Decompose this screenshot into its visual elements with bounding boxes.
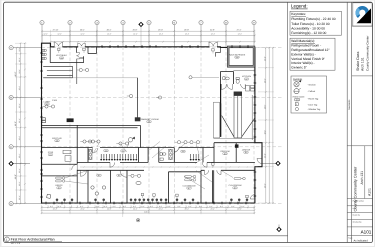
entry double doors west pair (54, 42, 63, 46)
svg-text:18'-0": 18'-0" (263, 153, 266, 158)
svg-text:26'-4": 26'-4" (107, 29, 112, 32)
svg-text:Scale: Scale (348, 236, 352, 239)
svg-text:Vertical Metal Finish 9": Vertical Metal Finish 9" (291, 57, 325, 61)
svg-text:26'-8": 26'-8" (184, 29, 189, 32)
sheet number rotated divider (364, 146, 366, 199)
svg-text:108: 108 (236, 56, 239, 59)
logo black triangle (357, 8, 372, 23)
svg-text:C: C (10, 146, 12, 149)
window ticks bottom wall (45, 202, 246, 205)
kitchen counters (233, 71, 255, 141)
corridor dimension string (80, 166, 258, 167)
svg-text:12'-4": 12'-4" (57, 33, 62, 36)
left rooms column walls (42, 125, 141, 203)
bottom dimension line row 2 (41, 209, 256, 211)
svg-text:18'-0": 18'-0" (263, 130, 266, 135)
view title separator (4, 235, 288, 237)
stor closet fixtures (63, 150, 71, 161)
window ticks top wall (101, 45, 248, 48)
project cell top line (347, 145, 372, 147)
svg-text:12'-4": 12'-4" (18, 47, 21, 52)
row grid bubbles A-D (9, 46, 13, 206)
svg-text:26'-4": 26'-4" (185, 208, 190, 211)
svg-text:113: 113 (245, 151, 248, 154)
svg-text:26'-4": 26'-4" (81, 208, 86, 211)
svg-text:26'-4": 26'-4" (237, 208, 242, 211)
wc door arcs (221, 84, 232, 89)
svg-text:Accessibility - 10 00 00: Accessibility - 10 00 00 (291, 27, 325, 31)
north service double door (209, 42, 217, 46)
corner toilet fixtures (42, 49, 46, 59)
svg-text:18'-0": 18'-0" (263, 78, 266, 83)
column grid lines (42, 47, 254, 214)
svg-text:Refrigerated Room -: Refrigerated Room - (291, 44, 321, 48)
restroom toilet stalls women (100, 154, 137, 161)
wc leader callout (189, 76, 219, 79)
svg-text:26'-4": 26'-4" (107, 208, 112, 211)
lobby drinking fountains (42, 118, 45, 123)
classroom leader diagonals (184, 155, 233, 189)
svg-text:Arch 131: Arch 131 (361, 57, 365, 71)
svg-text:Symbols: Symbols (293, 78, 303, 81)
kitchen se door (241, 84, 246, 89)
svg-text:46'-8": 46'-8" (14, 121, 17, 126)
consultant cell line (352, 25, 373, 27)
right dimension texts (263, 56, 266, 188)
right dimension extension lines (258, 48, 274, 203)
stage ramp (234, 92, 242, 138)
section marker top (138, 22, 143, 47)
svg-text:Revisions: Revisions (348, 99, 351, 110)
svg-text:18'-0": 18'-0" (263, 183, 266, 188)
office desk (47, 194, 51, 198)
PLAN_END (290, 4, 341, 113)
svg-text:12'-4": 12'-4" (18, 118, 21, 123)
svg-text:116: 116 (118, 174, 121, 177)
window ticks left wall (40, 52, 43, 197)
left dimension extension lines (15, 43, 26, 203)
svg-text:- Window Tag: - Window Tag (307, 108, 321, 111)
kitchen wing walls (214, 71, 255, 162)
svg-text:26'-4": 26'-4" (211, 208, 216, 211)
row grid stems (13, 48, 41, 204)
restroom band walls (77, 143, 255, 163)
column grid stems (42, 25, 254, 47)
svg-text:D: D (10, 203, 12, 206)
svg-text:118: 118 (234, 187, 237, 190)
right dimension line col 1 (265, 47, 267, 204)
svg-text:26'-4": 26'-4" (80, 29, 85, 32)
svg-text:12'-4": 12'-4" (18, 57, 21, 62)
svg-text:18'-0": 18'-0" (263, 56, 266, 61)
svg-text:102: 102 (122, 150, 125, 153)
svg-text:Wall Material(s):: Wall Material(s): (291, 39, 315, 43)
top dimension texts (43, 29, 242, 36)
symbol section marker (294, 80, 317, 87)
keynotes box (290, 11, 341, 35)
svg-text:12'-4": 12'-4" (107, 33, 112, 36)
svg-text:104: 104 (182, 150, 185, 153)
svg-text:Toilet Fixture(s) - 10 28 00: Toilet Fixture(s) - 10 28 00 (291, 22, 329, 26)
svg-text:218'-0": 218'-0" (144, 211, 150, 214)
svg-text:- Section: - Section (307, 83, 316, 86)
svg-text:25'-8": 25'-8" (133, 29, 138, 32)
svg-text:Plumbing Fixture(s) - 22 40 00: Plumbing Fixture(s) - 22 40 00 (291, 17, 336, 21)
section flag marker mid (128, 137, 135, 148)
view title underline (10, 240, 62, 242)
svg-text:12'-4": 12'-4" (18, 86, 21, 91)
classroom sink (136, 181, 141, 184)
svg-text:27'-10": 27'-10" (53, 29, 59, 32)
svg-text:County Community Center: County Community Center (354, 166, 358, 211)
office callout pills (56, 177, 65, 182)
section marker left (8, 161, 30, 166)
kiln room door arc (81, 170, 87, 176)
logo box (353, 3, 372, 26)
wc room fixtures (223, 77, 240, 84)
svg-text:107: 107 (245, 78, 248, 81)
svg-text:46'-8": 46'-8" (14, 174, 17, 179)
svg-text:Arch 131: Arch 131 (360, 171, 364, 185)
craft room door arc (120, 170, 127, 177)
keynote callouts (42, 68, 199, 177)
entry double doors east pair (78, 43, 85, 47)
svg-text:106: 106 (56, 139, 59, 142)
titleblock outer left line (346, 2, 348, 242)
bottom dimension extension lines (42, 205, 255, 214)
consultant cell bottom line (352, 75, 373, 77)
stage funnel walls (214, 102, 255, 138)
svg-text:- Callout: - Callout (307, 90, 316, 93)
svg-text:Exterior Wall(s) -: Exterior Wall(s) - (291, 52, 315, 56)
wall materials box (290, 38, 335, 70)
bottom center marker (123, 204, 140, 222)
left column doors (72, 164, 78, 170)
view number bubble (5, 237, 10, 242)
PLAN_START (8, 21, 282, 233)
door tag squares (58, 48, 249, 200)
classroom callout rows (185, 175, 246, 181)
symbol room tag (293, 96, 319, 102)
right dimension line col 2 (268, 47, 270, 204)
svg-text:Drawn by: Drawn by (353, 214, 360, 217)
lobby stair bars (43, 59, 137, 84)
svg-text:12'-4": 12'-4" (211, 33, 216, 36)
titleblock inner left line (351, 2, 353, 242)
section marker bottom (276, 225, 281, 233)
lower right door (250, 195, 255, 200)
lower rooms walls (77, 170, 255, 203)
svg-text:12'-4": 12'-4" (133, 33, 138, 36)
svg-text:117: 117 (188, 187, 191, 190)
lobby east wall cap (135, 117, 141, 121)
restroom tags (104, 149, 186, 153)
svg-text:101: 101 (46, 103, 49, 106)
svg-text:1/8" = 1'-0": 1/8" = 1'-0" (11, 242, 21, 245)
svg-text:101: 101 (296, 98, 299, 101)
symbols box (291, 76, 327, 113)
lobby east wall (137, 78, 139, 118)
svg-text:12'-4": 12'-4" (159, 33, 164, 36)
svg-text:111: 111 (49, 153, 52, 156)
row grid lines (42, 48, 283, 204)
svg-text:12'-4": 12'-4" (18, 181, 21, 186)
top dimension line row 1 (41, 30, 255, 32)
building envelope walls (42, 43, 263, 203)
window ticks right wall (254, 74, 257, 196)
left dimension line col 2 (20, 42, 22, 204)
svg-text:100: 100 (60, 57, 63, 60)
family restroom fixtures (160, 153, 166, 161)
svg-text:24'-8": 24'-8" (210, 29, 215, 32)
svg-text:ROOM NAME: ROOM NAME (293, 96, 306, 99)
column grid bubbles 1-9 (40, 21, 256, 25)
svg-text:18'-0": 18'-0" (263, 104, 266, 109)
lobby column block (67, 118, 74, 122)
svg-text:26'-4": 26'-4" (53, 208, 58, 211)
svg-text:Date: Date (353, 207, 357, 210)
svg-text:Interior Wall(s) -: Interior Wall(s) - (291, 61, 314, 65)
svg-text:Checked by: Checked by (353, 221, 362, 224)
corridor door east (202, 162, 207, 167)
restroom lavatories (89, 149, 173, 159)
svg-text:12'-4": 12'-4" (238, 33, 243, 36)
svg-text:26'-4": 26'-4" (133, 208, 138, 211)
wall door openings (55, 47, 217, 148)
symbol callout (294, 88, 316, 93)
svg-text:12'-4": 12'-4" (43, 33, 48, 36)
svg-text:Project number: Project number (353, 200, 365, 203)
kiln circles (91, 186, 106, 195)
bottom dimension texts (50, 205, 245, 214)
classroom entry doors (205, 170, 222, 174)
svg-text:105: 105 (148, 120, 151, 123)
svg-text:As indicated: As indicated (354, 239, 369, 242)
svg-text:115: 115 (98, 174, 101, 177)
room labels (44, 53, 252, 190)
svg-text:- Room Tag: - Room Tag (307, 98, 319, 101)
east entry bump door (257, 159, 262, 164)
svg-text:26'-4": 26'-4" (159, 208, 164, 211)
symbol door tag (295, 103, 318, 107)
corridor door west (110, 162, 115, 167)
right dimension line col 3 (272, 47, 274, 204)
top dimension extension lines (42, 30, 255, 43)
bottom dimension line row 3 (41, 212, 256, 214)
top dimension line row 4 main-wall (50, 41, 256, 43)
legend separator (287, 2, 289, 242)
callout leader diagonals (94, 142, 199, 159)
top band walls (50, 43, 220, 62)
symbol window tag (295, 108, 321, 112)
vestibule inner double door (77, 53, 80, 59)
svg-text:Shake Dass: Shake Dass (356, 51, 360, 71)
svg-text:12'-4": 12'-4" (18, 69, 21, 74)
office leader diagonals (65, 171, 88, 184)
svg-text:Furnishing(s) - 12 00 00: Furnishing(s) - 12 00 00 (291, 31, 326, 35)
svg-text:12'-4": 12'-4" (80, 33, 85, 36)
svg-text:First Floor Architectural Plan: First Floor Architectural Plan (11, 237, 55, 241)
svg-text:12'-4": 12'-4" (185, 33, 190, 36)
restroom doors (93, 148, 179, 154)
restroom toilet stalls men (190, 154, 200, 161)
logo blue arc (357, 8, 367, 17)
wall column dots (56, 199, 249, 203)
section marker right (262, 161, 281, 166)
svg-text:A101: A101 (367, 188, 371, 196)
top dimension line row 2 (41, 35, 256, 37)
svg-text:12'-4": 12'-4" (18, 136, 21, 141)
svg-text:Generic 5": Generic 5" (291, 66, 307, 70)
svg-text:1: 1 (296, 103, 297, 106)
bottom dimension line row 1 (41, 207, 256, 209)
svg-text:A101: A101 (361, 229, 372, 234)
svg-text:Legend:: Legend: (291, 4, 308, 9)
kitchen wall junction block (235, 144, 239, 147)
svg-text:12'-4": 12'-4" (18, 153, 21, 158)
svg-text:103: 103 (105, 149, 108, 152)
svg-text:12'-4": 12'-4" (18, 168, 21, 173)
svg-text:County Community Center: County Community Center (366, 36, 370, 71)
svg-text:114: 114 (224, 152, 227, 155)
left dimension line col 1 (16, 47, 18, 205)
svg-text:- Door Tag: - Door Tag (307, 103, 318, 106)
svg-text:12'-4": 12'-4" (18, 195, 21, 200)
left dimension texts (14, 47, 21, 200)
svg-text:46'-8": 46'-8" (14, 71, 17, 76)
svg-text:Refrigerated/Insulated 12": Refrigerated/Insulated 12" (291, 48, 330, 52)
svg-text:25'-0": 25'-0" (158, 29, 163, 32)
left dimension line col 3 (24, 42, 26, 203)
svg-text:110: 110 (58, 187, 61, 190)
project cell bottom line (347, 198, 372, 200)
svg-text:Keynotes:: Keynotes: (291, 12, 306, 16)
svg-text:12'-4": 12'-4" (18, 103, 21, 108)
svg-text:27'-4": 27'-4" (237, 29, 242, 32)
